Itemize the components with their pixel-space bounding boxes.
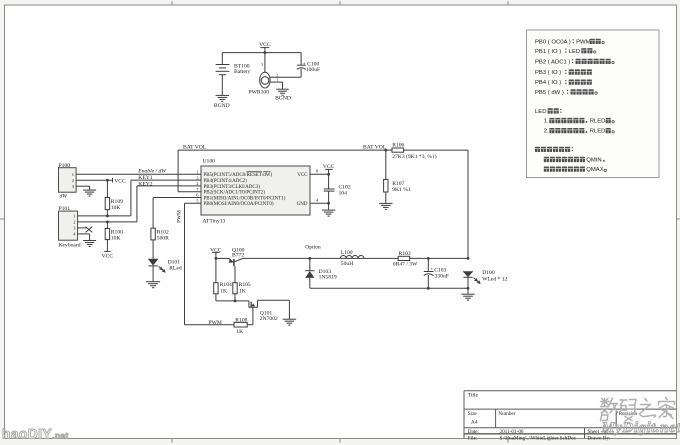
- svg-text:VCC: VCC: [114, 178, 126, 184]
- svg-text:PB5 ( dW ): PB5 ( dW ): [535, 90, 564, 96]
- svg-text:U100: U100: [203, 158, 216, 164]
- svg-text:Enable / dW: Enable / dW: [137, 169, 167, 175]
- svg-text:9K1 %1: 9K1 %1: [392, 187, 411, 193]
- svg-text:Sheet: Sheet: [588, 429, 600, 435]
- svg-text:Size: Size: [468, 411, 478, 417]
- svg-text:PWM: PWM: [177, 210, 183, 223]
- svg-text:S:\HuaMing\..\WhiteLighter.Sch: S:\HuaMing\..\WhiteLighter.SchDoc: [500, 436, 577, 442]
- svg-text:1N5819: 1N5819: [319, 275, 337, 281]
- svg-text:D100: D100: [482, 270, 495, 276]
- svg-text:PB2(SCK/ADC1/T0/PCINT2): PB2(SCK/ADC1/T0/PCINT2): [204, 191, 266, 196]
- svg-text:10K: 10K: [111, 205, 121, 211]
- svg-text:R104: R104: [220, 282, 232, 288]
- svg-text:LED: LED: [569, 49, 580, 55]
- svg-text:BGND: BGND: [275, 96, 291, 102]
- svg-text:Title: Title: [468, 392, 479, 398]
- svg-text:1K: 1K: [239, 288, 246, 294]
- svg-text:BGND: BGND: [214, 103, 230, 109]
- svg-text:100uF: 100uF: [306, 67, 320, 73]
- svg-text:1K: 1K: [236, 329, 243, 335]
- svg-text:330uF: 330uF: [435, 273, 449, 279]
- svg-text:10K: 10K: [111, 235, 121, 241]
- svg-text:3: 3: [261, 63, 263, 67]
- svg-text:BAT VOL: BAT VOL: [183, 145, 207, 151]
- svg-text:50uH: 50uH: [341, 261, 353, 267]
- svg-text:PB5(PCINT5/ADC0/RESET/dW): PB5(PCINT5/ADC0/RESET/dW): [204, 173, 273, 178]
- svg-text:PB0 ( OC0A ): PB0 ( OC0A ): [535, 39, 571, 45]
- svg-text:PB4(PCINT4/ADC2): PB4(PCINT4/ADC2): [204, 179, 248, 184]
- svg-text:2011-01-06: 2011-01-06: [500, 429, 524, 435]
- svg-text:1.: 1.: [544, 119, 549, 125]
- svg-text:PB0(MOSI/AIN0/OC0A/PCINT0): PB0(MOSI/AIN0/OC0A/PCINT0): [204, 202, 274, 207]
- svg-text:R105: R105: [239, 282, 251, 288]
- svg-text:0R47 / 3W: 0R47 / 3W: [393, 261, 418, 267]
- svg-text:QMAX: QMAX: [586, 167, 603, 173]
- svg-text:104: 104: [339, 190, 348, 196]
- svg-text:2.: 2.: [544, 129, 549, 135]
- svg-text:R108: R108: [235, 317, 247, 323]
- svg-text:Number: Number: [498, 411, 515, 417]
- svg-text:Option: Option: [305, 245, 321, 251]
- svg-text:PWR100: PWR100: [249, 89, 270, 95]
- svg-text:LED: LED: [535, 109, 546, 115]
- svg-text:PB1(MISO/AIN1/OC0B/INT0/PCINT1: PB1(MISO/AIN1/OC0B/INT0/PCINT1): [204, 196, 286, 201]
- svg-text:RLED: RLED: [590, 129, 606, 135]
- svg-text:Drawn By:: Drawn By:: [588, 436, 611, 442]
- svg-text:WLed * 12: WLed * 12: [482, 276, 507, 282]
- svg-text:1: 1: [276, 78, 278, 82]
- svg-text:PB2 ( ADC1 ): PB2 ( ADC1 ): [535, 59, 570, 65]
- svg-text:RLED: RLED: [590, 119, 606, 125]
- svg-text:VCC: VCC: [297, 173, 308, 178]
- svg-text:MyDigit.net: MyDigit.net: [601, 420, 680, 436]
- svg-text:560R: 560R: [157, 235, 169, 241]
- svg-text:RLed: RLed: [169, 265, 182, 271]
- svg-text:Keyboard: Keyboard: [59, 242, 81, 248]
- svg-text:B772: B772: [232, 252, 244, 258]
- svg-text:KEY2: KEY2: [138, 181, 152, 187]
- svg-text:Date:: Date:: [468, 429, 480, 435]
- svg-text:GND: GND: [297, 202, 308, 207]
- svg-text:VCC: VCC: [102, 253, 114, 259]
- svg-text:QMIN: QMIN: [586, 158, 601, 164]
- svg-text:ATTiny13: ATTiny13: [203, 218, 226, 224]
- svg-text:2N7002: 2N7002: [260, 316, 278, 322]
- svg-text:A4: A4: [471, 420, 478, 426]
- svg-text:R106: R106: [392, 143, 404, 149]
- svg-text:File:: File:: [468, 436, 478, 442]
- svg-text:1K: 1K: [220, 288, 227, 294]
- svg-text:27K3 (9K1 *3, %1): 27K3 (9K1 *3, %1): [392, 153, 437, 160]
- svg-text:PWM: PWM: [209, 320, 222, 326]
- svg-text:+: +: [430, 266, 433, 271]
- svg-text:PB3(PCINT3/CLKI/ADC3): PB3(PCINT3/CLKI/ADC3): [204, 185, 261, 190]
- svg-text:PWM: PWM: [576, 39, 590, 45]
- svg-text:KEY1: KEY1: [138, 175, 152, 181]
- svg-text:PB1 ( IO ): PB1 ( IO ): [535, 49, 561, 55]
- svg-text:BAT VOL: BAT VOL: [363, 145, 387, 151]
- svg-text:2: 2: [276, 73, 278, 77]
- svg-text:R103: R103: [399, 251, 411, 257]
- svg-text:Battery: Battery: [234, 69, 251, 75]
- svg-text:PB4 ( IO ): PB4 ( IO ): [535, 80, 561, 86]
- svg-text:PB3 ( IO ): PB3 ( IO ): [535, 70, 561, 76]
